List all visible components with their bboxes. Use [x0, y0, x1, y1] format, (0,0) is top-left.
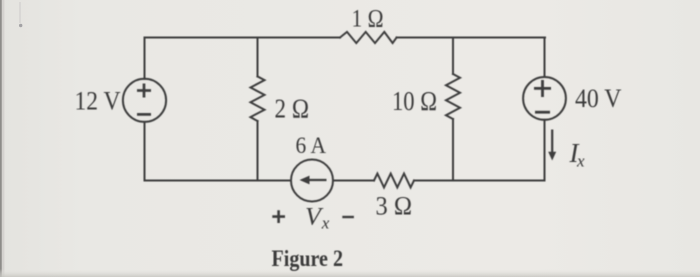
- svg-text:Figure 2: Figure 2: [272, 246, 344, 271]
- svg-text:12 V: 12 V: [75, 87, 121, 116]
- wire bottom-left horizontal: [145, 180, 292, 182]
- wire top-left horizontal: [145, 37, 341, 39]
- polarity marks 12V source: [137, 84, 151, 115]
- voltage source 40V circle: [523, 77, 566, 120]
- wire bottom-middle horizontal: [333, 180, 374, 182]
- voltage source 12V circle: [123, 79, 166, 122]
- svg-text:x: x: [321, 214, 330, 233]
- wire left branch lower: [144, 122, 146, 181]
- resistor R 2ohm: [251, 76, 265, 121]
- resistor R 1ohm: [340, 32, 397, 43]
- wire top-right horizontal: [397, 37, 545, 39]
- label minus of Vx: [342, 216, 354, 218]
- wire bottom-right horizontal: [414, 180, 545, 182]
- wire right branch lower: [544, 120, 546, 181]
- svg-text:6 A: 6 A: [296, 133, 327, 159]
- wire 2ohm branch lower: [257, 121, 259, 181]
- bottom page edge shadow: [0, 269, 700, 277]
- svg-text:1 Ω: 1 Ω: [352, 3, 384, 32]
- current source 6A circle: [291, 160, 333, 202]
- arrow Ix current: [548, 130, 556, 161]
- svg-text:10 Ω: 10 Ω: [392, 86, 437, 116]
- resistor R 3ohm: [374, 174, 414, 188]
- svg-text:x: x: [576, 152, 585, 171]
- wire right branch upper: [544, 38, 546, 78]
- svg-text:40 V: 40 V: [575, 83, 622, 113]
- svg-text:3 Ω: 3 Ω: [376, 190, 413, 220]
- svg-text:2 Ω: 2 Ω: [275, 94, 310, 124]
- wire left branch upper: [144, 38, 146, 79]
- wire 10ohm branch lower: [452, 119, 454, 181]
- arrow inside 6A source: [300, 176, 327, 185]
- label plus of Vx: [272, 210, 285, 223]
- speck: [19, 24, 22, 27]
- resistor R 10ohm: [446, 74, 460, 119]
- wire 2ohm branch upper: [257, 38, 259, 77]
- wire 10ohm branch upper: [452, 38, 454, 75]
- left page edge shadow: [0, 0, 2, 277]
- polarity marks 40V source: [534, 80, 551, 112]
